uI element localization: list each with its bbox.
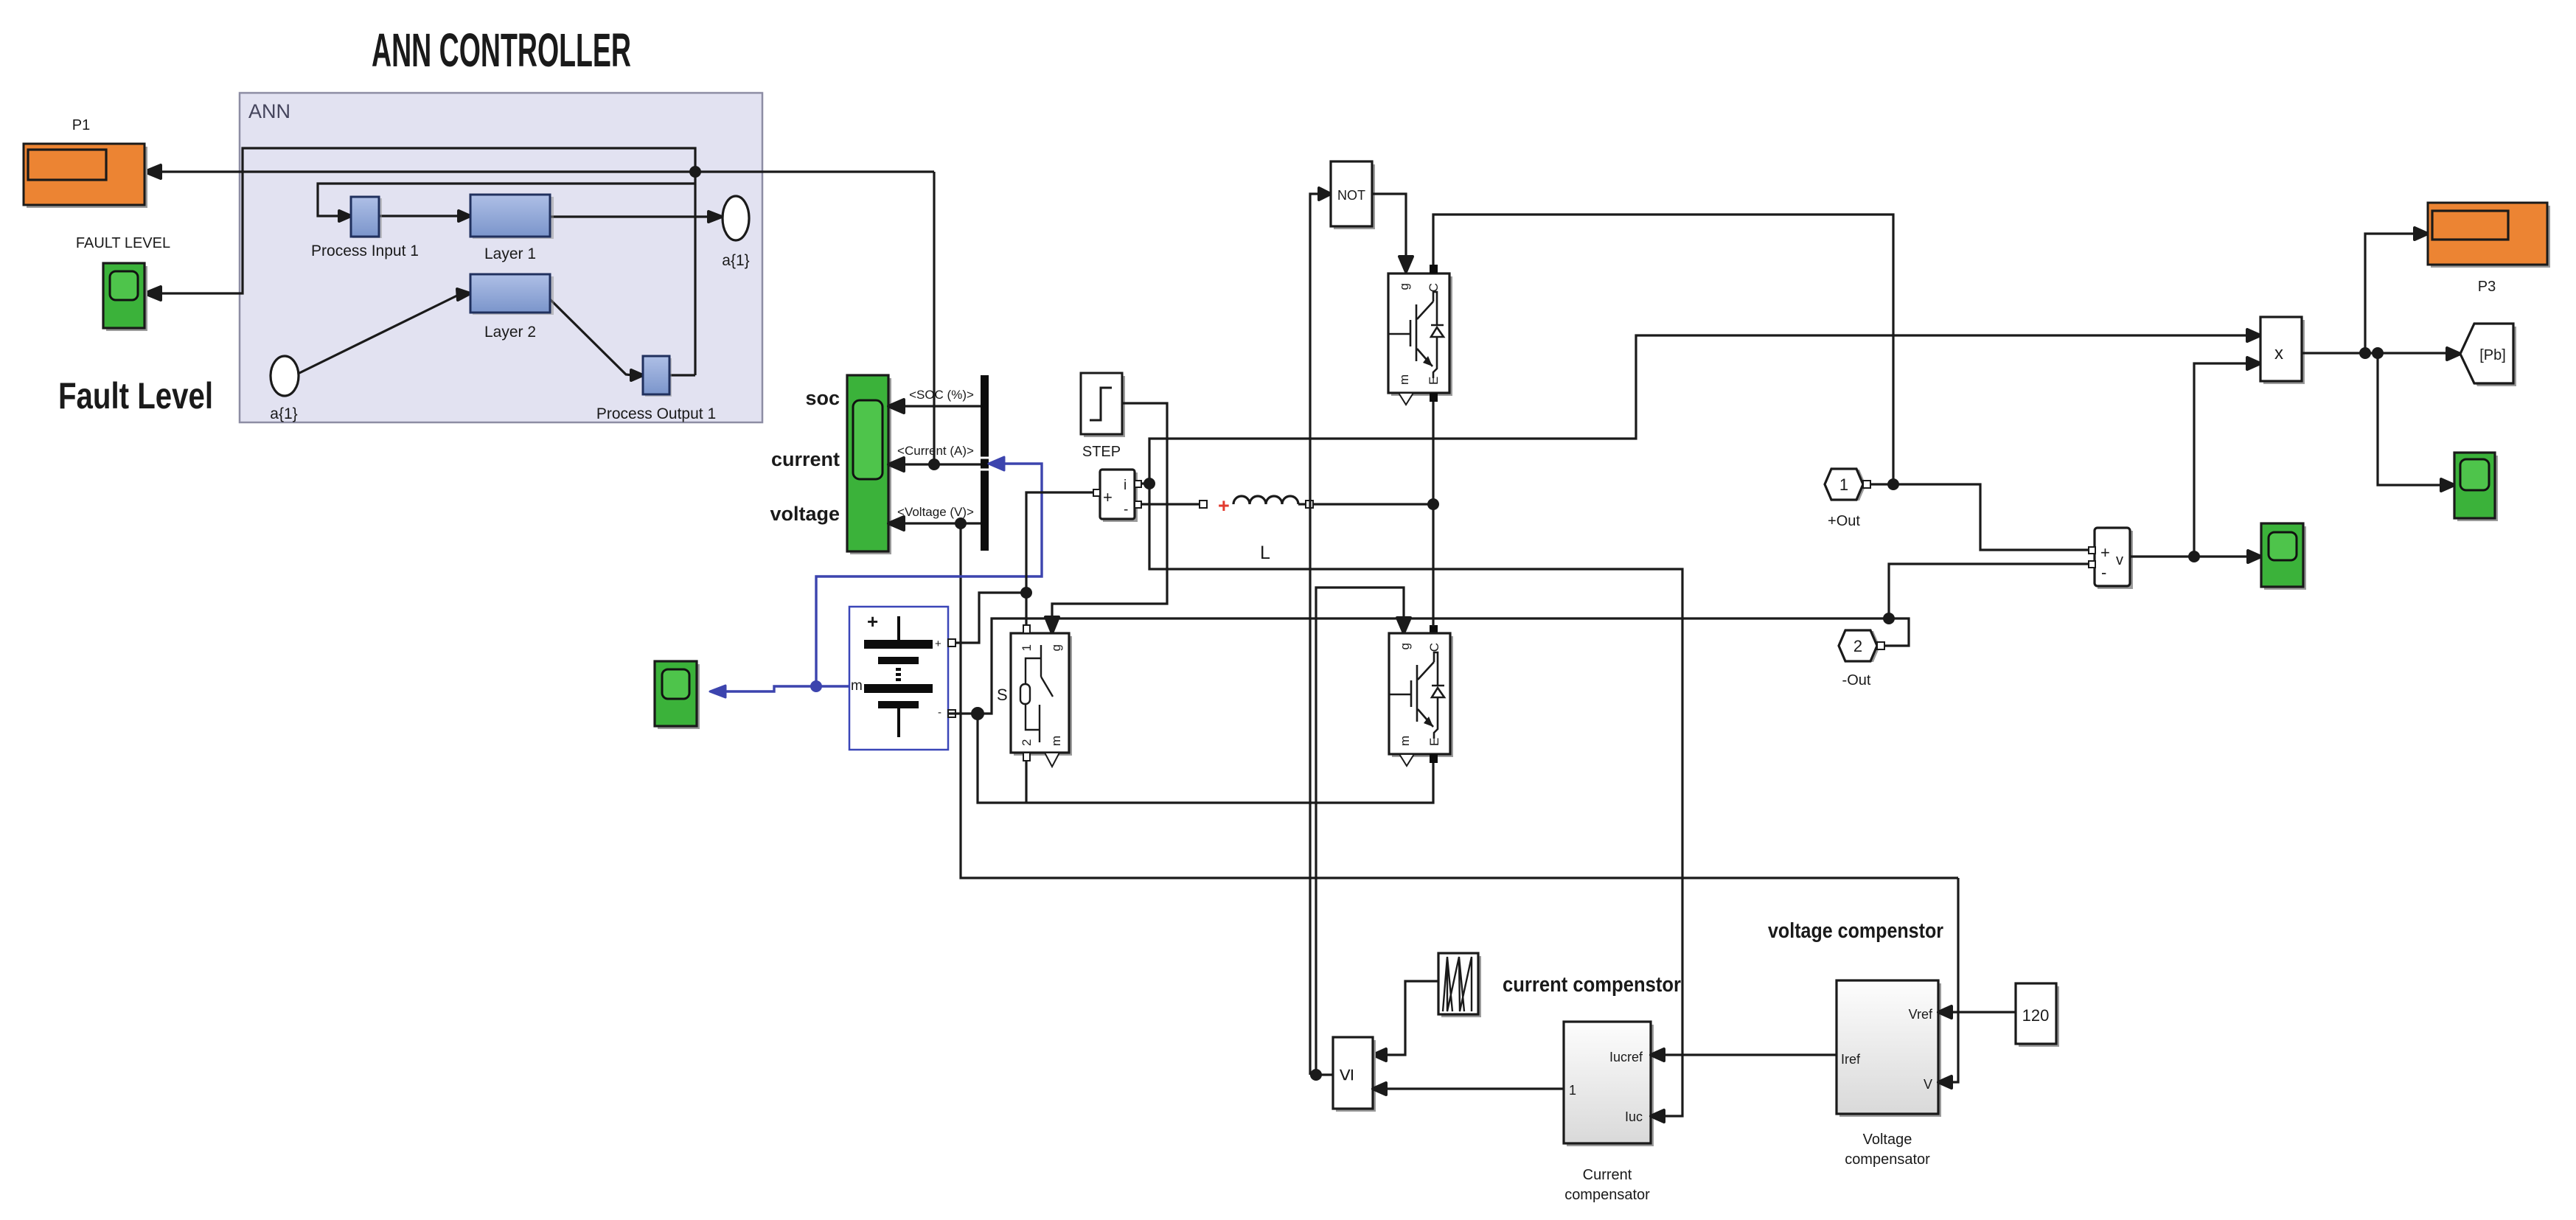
wire -Out to minus rail xyxy=(1884,618,1909,646)
scope battery signals xyxy=(850,378,891,554)
svg-text:g: g xyxy=(1049,644,1063,651)
svg-text:ANN: ANN xyxy=(248,100,290,122)
svg-text:2: 2 xyxy=(1020,739,1034,746)
wire battery minus net xyxy=(948,618,1889,714)
wire PWM to NOT input xyxy=(1310,194,1320,1075)
wire breaker port2 down xyxy=(1025,761,1027,803)
wire PWM to lower IGBT gate xyxy=(1316,588,1404,1075)
wire product output xyxy=(2302,352,2448,354)
svg-text:soc: soc xyxy=(805,387,840,409)
svg-text:Voltage: Voltage xyxy=(1863,1132,1912,1148)
svg-text:Current: Current xyxy=(1583,1167,1632,1183)
blue wire to battery scope xyxy=(721,686,816,691)
svg-text:Layer 1: Layer 1 xyxy=(484,245,536,262)
wire voltage to product input xyxy=(2194,363,2250,557)
wire Process Output 1 to feedback xyxy=(669,374,695,376)
wire current tap to P1 line xyxy=(933,172,935,464)
svg-text:Process Input 1: Process Input 1 xyxy=(311,243,419,259)
svg-text:-Out: -Out xyxy=(1842,672,1871,689)
svg-text:E: E xyxy=(1427,738,1441,746)
svg-text:P3: P3 xyxy=(2478,279,2496,295)
wire voltage feedback long xyxy=(961,523,1958,878)
svg-text:+: + xyxy=(2100,543,2110,562)
wire Voltage to scope xyxy=(899,522,981,524)
svg-text:120: 120 xyxy=(2022,1006,2050,1025)
svg-text:+: + xyxy=(1103,488,1113,506)
wire Current to scope xyxy=(899,463,981,465)
arrows into current compensator xyxy=(1651,1049,1664,1061)
svg-text:i: i xyxy=(1124,478,1127,493)
svg-text:ANN CONTROLLER: ANN CONTROLLER xyxy=(372,24,631,77)
wire inner loop y249 xyxy=(318,184,695,216)
battery block xyxy=(849,607,948,750)
scope battery m xyxy=(658,664,700,729)
wire 120 to Vref xyxy=(1949,1011,2016,1013)
subsystem Voltage compensator xyxy=(1839,983,1941,1117)
svg-text:Vref: Vref xyxy=(1909,1007,1933,1022)
svg-text:m: m xyxy=(851,678,863,694)
port +Out xyxy=(1828,470,1866,501)
junction at feedback/P1 line xyxy=(691,167,700,176)
wire battery plus to sensor and breaker xyxy=(948,593,1026,643)
breaker block S xyxy=(1014,636,1072,756)
svg-text:-: - xyxy=(2101,563,2106,582)
wire sensor minus to inductor xyxy=(1141,503,1200,505)
svg-text:compensator: compensator xyxy=(1564,1187,1650,1203)
svg-text:L: L xyxy=(1260,543,1270,563)
svg-text:m: m xyxy=(1398,736,1412,746)
svg-text:voltage compenstor: voltage compenstor xyxy=(1768,919,1943,943)
wire feedback top y201 xyxy=(159,148,695,375)
svg-text:Iref: Iref xyxy=(1841,1052,1861,1067)
block Layer 2 xyxy=(473,276,554,315)
svg-text:v: v xyxy=(2116,552,2123,568)
wire to power scope xyxy=(2378,353,2443,485)
svg-text:g: g xyxy=(1398,643,1412,649)
comparator block <= xyxy=(1336,1040,1376,1112)
IGBT2 lower xyxy=(1392,636,1453,757)
svg-text:V: V xyxy=(1924,1077,1932,1092)
wire voltmeter to scope xyxy=(2130,555,2250,557)
svg-text:1: 1 xyxy=(1020,644,1034,651)
wire STEP to breaker gate xyxy=(1052,403,1167,623)
ANN subsystem box xyxy=(240,93,762,422)
svg-text:Layer 2: Layer 2 xyxy=(484,324,536,341)
svg-text:-: - xyxy=(1124,502,1128,517)
wire upper IGBT emitter to midpoint and lower collector xyxy=(1432,402,1434,627)
wire sawtooth to comparator xyxy=(1383,981,1438,1055)
svg-text:current compenstor: current compenstor xyxy=(1503,973,1681,997)
svg-text:1: 1 xyxy=(1569,1083,1576,1098)
svg-text:Process Output 1: Process Output 1 xyxy=(596,405,716,422)
blue junction xyxy=(812,682,821,691)
source STEP xyxy=(1084,376,1125,437)
svg-text:g: g xyxy=(1397,283,1411,290)
wire inductor to half bridge midpoint xyxy=(1313,503,1433,505)
svg-text:m: m xyxy=(1049,736,1063,746)
svg-text:a{1}: a{1} xyxy=(270,405,297,422)
wire a{1} to Layer 2 xyxy=(298,294,460,374)
svg-text:+Out: +Out xyxy=(1828,513,1860,529)
svg-text:FAULT LEVEL: FAULT LEVEL xyxy=(76,235,170,251)
wire upper IGBT collector to +Out rail xyxy=(1433,215,1893,484)
sawtooth carrier block xyxy=(1441,956,1481,1017)
port -Out xyxy=(1842,631,1880,662)
wire current compensator to comparator xyxy=(1383,1087,1564,1090)
svg-text:<Current (A)>: <Current (A)> xyxy=(897,444,974,458)
svg-text:Iucref: Iucref xyxy=(1609,1050,1643,1064)
wire Process Input 1 to Layer 1 xyxy=(379,215,460,217)
scope voltage xyxy=(2264,526,2306,590)
svg-text:<SOC (%)>: <SOC (%)> xyxy=(909,388,974,402)
block Layer 1 xyxy=(473,197,554,239)
arrows into product xyxy=(2247,330,2260,341)
voltmeter v xyxy=(2098,531,2133,589)
wire minus rail to voltmeter minus xyxy=(1889,564,2090,618)
inductor L xyxy=(1200,501,1207,508)
subsystem Current compensator xyxy=(1567,1025,1654,1146)
svg-text:S: S xyxy=(997,686,1008,704)
arrow into P1 xyxy=(145,165,161,178)
svg-text:current: current xyxy=(771,448,840,470)
blue wire battery m to bus xyxy=(816,464,1042,686)
wire voltage feedback to V input xyxy=(1949,878,1958,1082)
scope power xyxy=(2457,456,2498,521)
wire SOC to scope xyxy=(899,405,981,407)
svg-text:STEP: STEP xyxy=(1082,444,1121,460)
svg-text:a{1}: a{1} xyxy=(722,252,749,269)
wire NOT output to upper IGBT gate xyxy=(1372,194,1406,259)
product block x xyxy=(2263,320,2305,384)
display P3 xyxy=(2431,206,2550,268)
svg-text:compensator: compensator xyxy=(1845,1151,1930,1168)
arrow into Process Input 1 xyxy=(339,211,351,221)
arrow into FAULT LEVEL scope xyxy=(145,287,161,300)
svg-text:+: + xyxy=(867,610,878,632)
svg-text:-: - xyxy=(938,706,941,719)
current sensor block xyxy=(1103,473,1138,522)
svg-text:NOT: NOT xyxy=(1337,188,1365,203)
svg-text:P1: P1 xyxy=(72,117,90,133)
wire comparator output to gates xyxy=(1310,1073,1333,1076)
svg-text:m: m xyxy=(1397,374,1411,385)
wire Layer 1 to a{1} xyxy=(550,215,709,217)
svg-text:+: + xyxy=(935,638,941,650)
svg-text:[Pb]: [Pb] xyxy=(2479,347,2506,363)
svg-text:2: 2 xyxy=(1853,637,1862,655)
wire to P1 y233 xyxy=(159,170,934,172)
svg-text:≤: ≤ xyxy=(1334,1069,1358,1081)
svg-text:Iuc: Iuc xyxy=(1625,1109,1643,1124)
block Process Input 1 xyxy=(352,198,382,238)
goto tag [Pb] xyxy=(2463,327,2516,386)
svg-text:1: 1 xyxy=(1839,475,1848,494)
logic NOT block xyxy=(1334,164,1375,229)
svg-text:x: x xyxy=(2274,344,2283,363)
svg-text:Fault Level: Fault Level xyxy=(58,375,213,416)
wire Iref to Iucref xyxy=(1661,1053,1837,1056)
block Process Output 1 xyxy=(645,358,672,397)
bus selector bar xyxy=(981,375,989,551)
wire +Out to voltmeter plus xyxy=(1870,484,2090,550)
svg-text:+: + xyxy=(1218,495,1230,517)
svg-text:C: C xyxy=(1427,643,1441,652)
wire to display P3 xyxy=(2365,234,2417,353)
wire Layer 2 to Process Output 1 xyxy=(550,299,633,375)
port a{1} bottom xyxy=(271,356,299,396)
svg-text:C: C xyxy=(1427,283,1441,292)
arrows into voltage compensator xyxy=(1938,1006,1952,1018)
port a{1} right xyxy=(723,196,749,240)
svg-text:voltage: voltage xyxy=(770,503,840,525)
constant 120 xyxy=(2019,986,2059,1047)
IGBT1 upper xyxy=(1391,276,1452,396)
wire sensor i output to product and compensator xyxy=(1141,335,2250,484)
svg-text:<Voltage (V)>: <Voltage (V)> xyxy=(897,505,974,519)
